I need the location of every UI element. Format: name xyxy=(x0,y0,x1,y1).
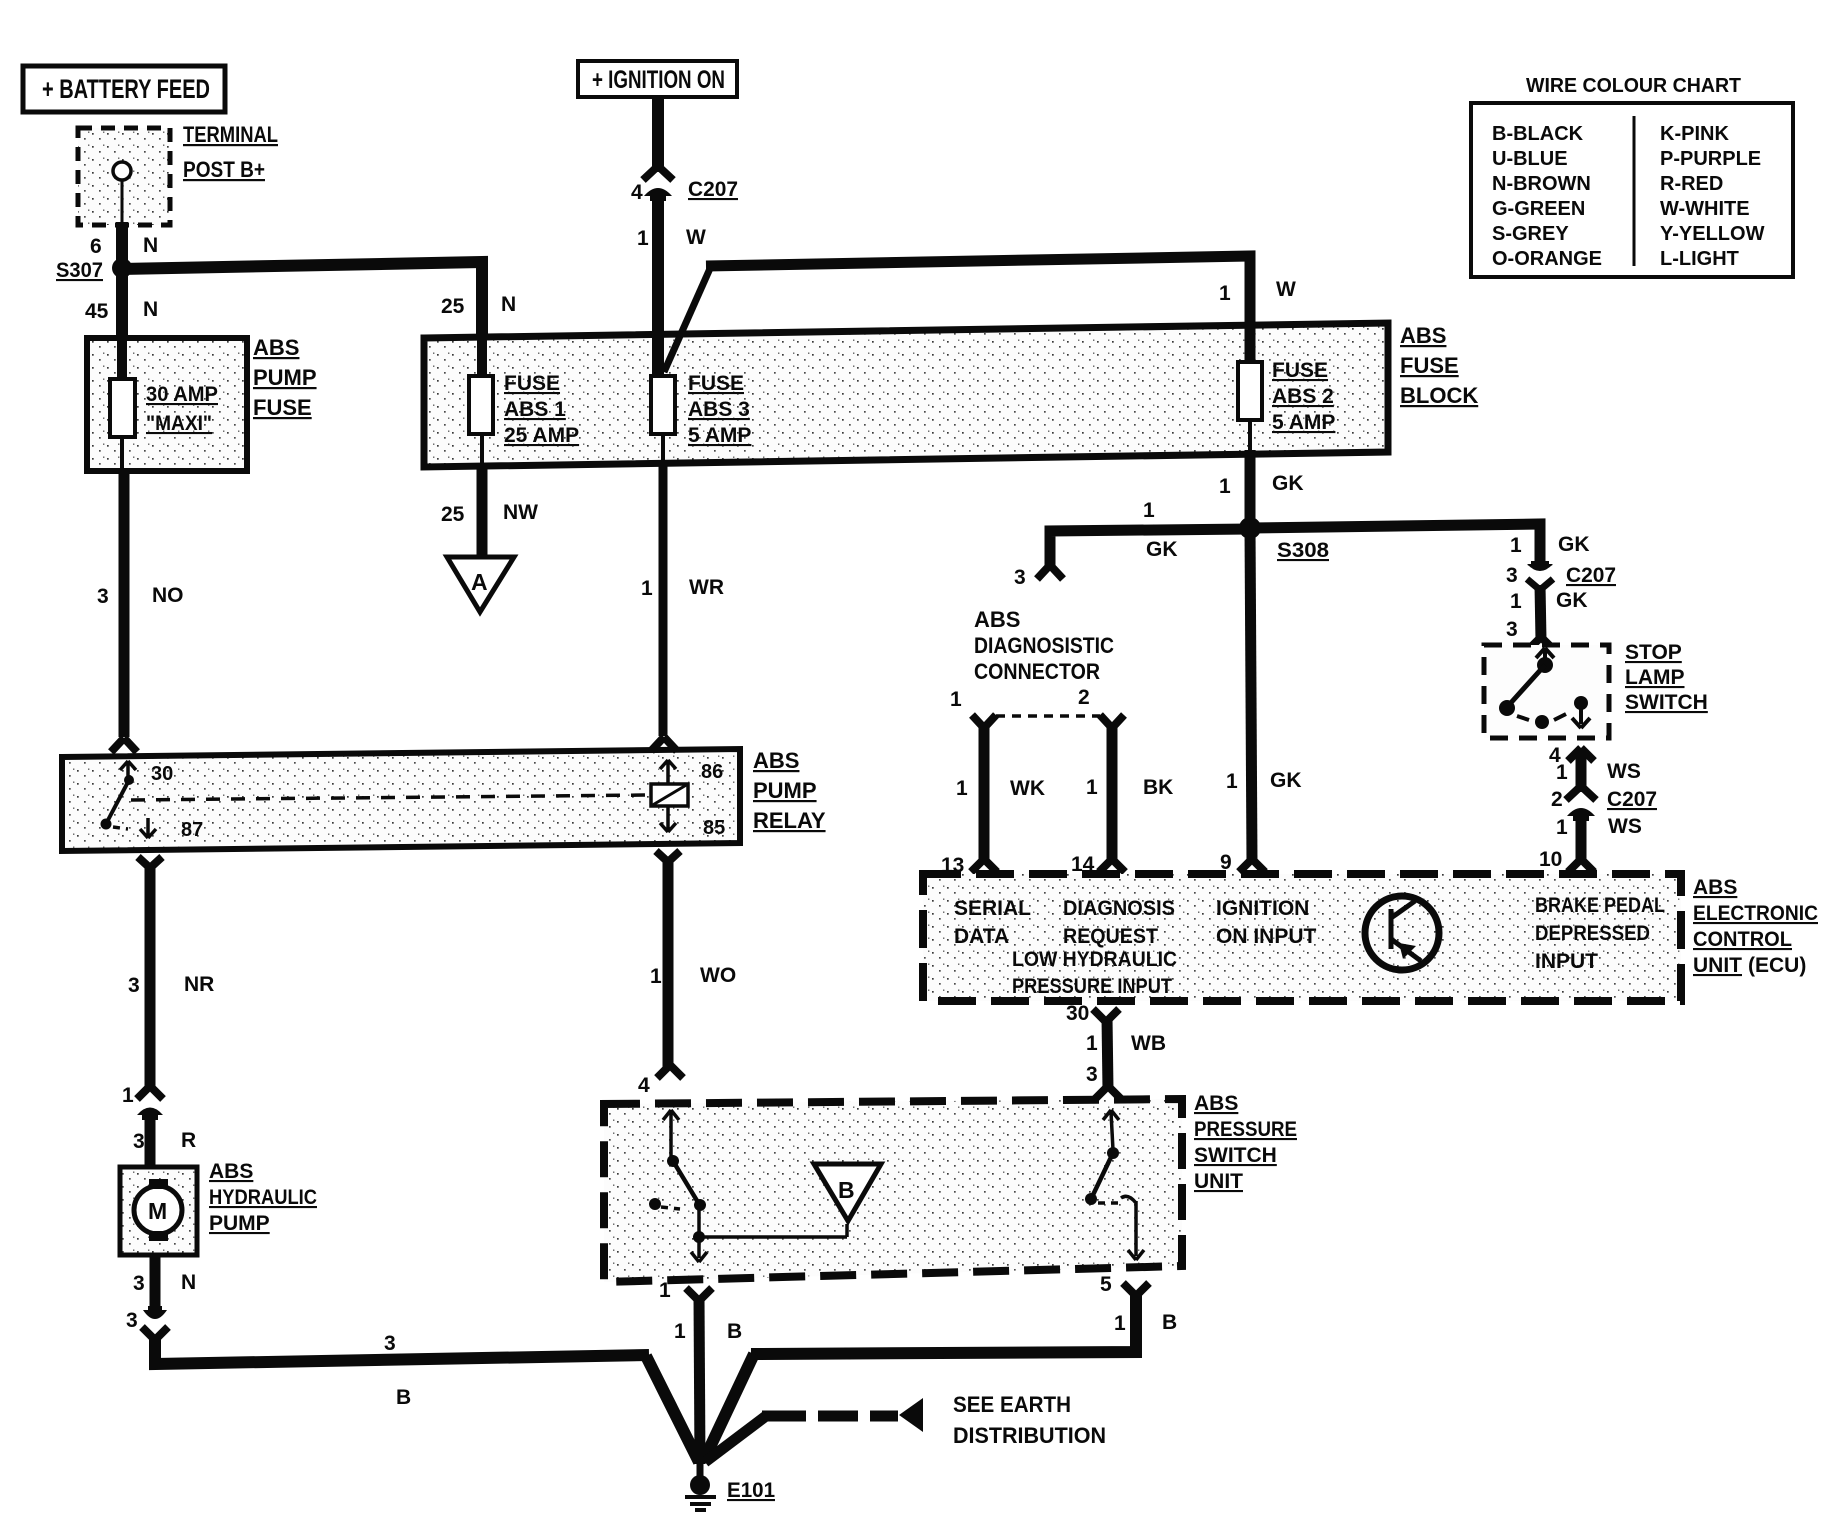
svg-text:TERMINAL: TERMINAL xyxy=(183,122,278,147)
svg-text:1: 1 xyxy=(641,577,653,600)
ABS hydraulic pump motor box xyxy=(120,1167,197,1255)
svg-text:BRAKE PEDAL: BRAKE PEDAL xyxy=(1535,894,1665,917)
svg-text:1: 1 xyxy=(637,227,649,250)
wire connector to pump, labels 3 R xyxy=(133,1113,196,1167)
svg-text:STOP: STOP xyxy=(1625,641,1682,664)
svg-text:BK: BK xyxy=(1143,776,1173,799)
svg-text:L-LIGHT: L-LIGHT xyxy=(1660,248,1739,270)
ignition on source box xyxy=(578,61,737,97)
wire S308 left branch to diagnostic connector, labels 1 GK 3 xyxy=(1014,499,1250,589)
svg-text:G-GREEN: G-GREEN xyxy=(1492,198,1585,220)
svg-text:ABS 1: ABS 1 xyxy=(504,398,566,421)
stop lamp switch label xyxy=(1625,641,1708,714)
pressure switch right contact pin 3 xyxy=(1085,1110,1144,1260)
svg-text:SEE EARTH: SEE EARTH xyxy=(953,1392,1071,1417)
svg-text:U-BLUE: U-BLUE xyxy=(1492,148,1568,170)
svg-text:3: 3 xyxy=(133,1272,145,1295)
svg-text:ABS: ABS xyxy=(974,607,1020,632)
wire pump branch to ground bus, labels 3 B xyxy=(155,1332,699,1462)
wire pressure switch pin 1 to ground, labels 1 B xyxy=(659,1279,742,1464)
svg-text:1: 1 xyxy=(1219,475,1231,498)
svg-text:4: 4 xyxy=(631,181,643,204)
stop lamp switch box xyxy=(1484,645,1609,738)
svg-text:30 AMP: 30 AMP xyxy=(146,383,218,406)
wire S307 down to ABS pump fuse, labels 45 N xyxy=(85,268,158,340)
svg-text:30: 30 xyxy=(1066,1002,1089,1025)
svg-text:PUMP: PUMP xyxy=(253,365,317,390)
svg-text:ABS: ABS xyxy=(1400,323,1446,348)
svg-text:85: 85 xyxy=(703,817,725,839)
svg-text:3: 3 xyxy=(128,974,140,997)
ECU transistor symbol xyxy=(1365,896,1439,970)
svg-text:3: 3 xyxy=(97,585,109,608)
relay coil drive dashed line xyxy=(131,795,651,800)
ABS hydraulic pump label xyxy=(209,1160,317,1235)
wire pressure switch pin 5 to ground, labels 1 B xyxy=(703,1273,1177,1462)
svg-text:ABS 3: ABS 3 xyxy=(688,398,750,421)
pressure switch left contact pin 4 xyxy=(663,1110,679,1167)
svg-text:B: B xyxy=(727,1320,742,1343)
svg-text:3: 3 xyxy=(1086,1063,1098,1086)
svg-text:R: R xyxy=(181,1129,196,1152)
wire ECU pin 30 to pressure switch pin 3, labels 30 1 WB 3 xyxy=(1066,1002,1166,1099)
wire relay 87 to pump, labels 3 NR xyxy=(128,857,214,1088)
terminal post B+ label xyxy=(183,122,278,182)
svg-text:S307: S307 xyxy=(56,259,103,282)
ABS pump fuse box xyxy=(87,338,247,471)
svg-text:FUSE: FUSE xyxy=(1272,359,1328,382)
svg-text:25: 25 xyxy=(441,295,465,318)
ABS electronic control unit ECU box xyxy=(923,874,1681,1001)
svg-text:W: W xyxy=(686,226,706,249)
svg-text:B: B xyxy=(838,1177,855,1203)
ABS fuse block label xyxy=(1400,323,1478,408)
wire C207 to fuse ABS3, labels 1 W xyxy=(637,194,706,378)
svg-text:2: 2 xyxy=(1078,686,1090,709)
svg-text:NR: NR xyxy=(184,973,214,996)
svg-text:+ IGNITION ON: + IGNITION ON xyxy=(592,66,725,94)
svg-text:S308: S308 xyxy=(1277,539,1329,562)
svg-text:WK: WK xyxy=(1010,777,1045,800)
svg-text:WS: WS xyxy=(1608,815,1642,838)
svg-text:1: 1 xyxy=(674,1320,686,1343)
relay pin 87 xyxy=(140,818,203,841)
wire pump down, labels 3 N xyxy=(133,1255,196,1312)
svg-text:SWITCH: SWITCH xyxy=(1194,1144,1277,1167)
svg-text:SERIAL: SERIAL xyxy=(954,897,1031,920)
relay pin 85 xyxy=(660,806,725,839)
svg-text:1: 1 xyxy=(659,1279,671,1302)
svg-text:FUSE: FUSE xyxy=(504,372,560,395)
svg-text:FUSE: FUSE xyxy=(688,372,744,395)
inline connector C207 (WS) xyxy=(1551,786,1657,821)
svg-text:GK: GK xyxy=(1270,769,1302,792)
svg-text:1: 1 xyxy=(650,965,662,988)
off-page connector A (triangle) xyxy=(447,557,514,612)
svg-text:GK: GK xyxy=(1556,589,1588,612)
svg-text:2: 2 xyxy=(1551,788,1563,811)
stop lamp switch contacts xyxy=(1499,648,1590,729)
wire ignition to connector C207, label 4 xyxy=(631,97,658,204)
svg-text:25 AMP: 25 AMP xyxy=(504,424,579,447)
svg-text:WIRE COLOUR CHART: WIRE COLOUR CHART xyxy=(1526,75,1741,97)
svg-text:"MAXI": "MAXI" xyxy=(146,412,212,435)
svg-text:25: 25 xyxy=(441,503,465,526)
ABS fuse block box xyxy=(424,323,1388,467)
wire C207 to ECU pin 10, labels 1 WS 10 xyxy=(1539,812,1642,872)
svg-text:GK: GK xyxy=(1272,472,1304,495)
ground E101 xyxy=(685,1458,775,1510)
svg-text:5: 5 xyxy=(1100,1273,1112,1296)
pressure switch left blade and contacts xyxy=(649,1161,847,1262)
ABS pump relay box xyxy=(62,749,740,851)
svg-text:GK: GK xyxy=(1558,533,1590,556)
relay pin 30 xyxy=(120,761,173,785)
svg-text:UNIT: UNIT xyxy=(1693,954,1742,977)
svg-text:6: 6 xyxy=(90,235,102,258)
svg-text:DIAGNOSIS: DIAGNOSIS xyxy=(1063,897,1175,920)
ABS pump relay label xyxy=(753,748,826,833)
inline connector C207 (GK branch) xyxy=(1506,561,1616,590)
svg-text:S-GREY: S-GREY xyxy=(1492,223,1569,245)
svg-text:N: N xyxy=(143,298,158,321)
wire C207 to stop lamp switch, labels 1 GK 3 xyxy=(1506,585,1588,650)
svg-text:ABS: ABS xyxy=(209,1160,253,1183)
svg-text:ABS: ABS xyxy=(1693,876,1737,899)
svg-text:N: N xyxy=(181,1271,196,1294)
svg-text:+ BATTERY FEED: + BATTERY FEED xyxy=(42,74,210,104)
wire stop lamp switch to C207, labels 4 1 WS xyxy=(1549,744,1641,792)
svg-text:3: 3 xyxy=(1014,566,1026,589)
inline connector 3 (N/B) xyxy=(126,1306,168,1340)
svg-text:C207: C207 xyxy=(1566,564,1616,587)
svg-text:WB: WB xyxy=(1131,1032,1166,1055)
svg-text:O-ORANGE: O-ORANGE xyxy=(1492,248,1602,270)
relay coil xyxy=(651,784,688,806)
svg-text:SWITCH: SWITCH xyxy=(1625,691,1708,714)
svg-text:INPUT: INPUT xyxy=(1535,950,1598,973)
svg-text:C207: C207 xyxy=(1607,788,1657,811)
svg-text:1: 1 xyxy=(1510,590,1522,613)
svg-text:4: 4 xyxy=(638,1074,650,1097)
svg-text:R-RED: R-RED xyxy=(1660,173,1723,195)
svg-text:1: 1 xyxy=(1143,499,1155,522)
svg-text:1: 1 xyxy=(122,1084,134,1107)
svg-text:DATA: DATA xyxy=(954,925,1009,948)
svg-text:BLOCK: BLOCK xyxy=(1400,383,1478,408)
ABS pump fuse label xyxy=(253,335,317,420)
svg-text:1: 1 xyxy=(950,688,962,711)
ABS electronic control unit label xyxy=(1693,876,1818,977)
wire S308 to ECU pin 9, labels 1 GK 9 xyxy=(1220,528,1302,874)
wire colour chart entries xyxy=(1492,123,1765,270)
svg-text:N: N xyxy=(501,293,516,316)
svg-text:CONTROL: CONTROL xyxy=(1693,928,1792,951)
svg-text:P-PURPLE: P-PURPLE xyxy=(1660,148,1761,170)
fuse element 30 AMP MAXI xyxy=(110,379,218,437)
ABS diagnostic connector label xyxy=(974,607,1114,684)
wire pump fuse to relay pin 30, labels 3 NO xyxy=(97,471,184,752)
svg-text:86: 86 xyxy=(701,761,723,783)
see earth distribution dashed wire with arrow xyxy=(705,1392,1106,1462)
svg-text:NO: NO xyxy=(152,584,184,607)
wire ignition branch to fuse ABS2 (horizontal), labels 1 W xyxy=(664,256,1296,372)
relay pin 86 xyxy=(660,760,723,784)
wire S308 right branch to stop lamp switch, labels 1 GK xyxy=(1250,524,1590,566)
svg-text:ELECTRONIC: ELECTRONIC xyxy=(1693,902,1818,925)
svg-text:DEPRESSED: DEPRESSED xyxy=(1535,922,1650,945)
svg-text:DISTRIBUTION: DISTRIBUTION xyxy=(953,1423,1106,1448)
svg-text:1: 1 xyxy=(1556,761,1568,784)
fuse ABS1 element xyxy=(469,340,579,464)
svg-text:5 AMP: 5 AMP xyxy=(688,424,751,447)
ABS pressure switch unit label xyxy=(1194,1092,1297,1193)
svg-text:ABS: ABS xyxy=(1194,1092,1238,1115)
node S308 xyxy=(1239,517,1329,562)
svg-text:ABS: ABS xyxy=(753,748,799,773)
ABS pressure switch unit box xyxy=(604,1099,1182,1282)
wire colour chart box xyxy=(1471,75,1793,277)
svg-text:1: 1 xyxy=(1510,534,1522,557)
off-page connector B (triangle) xyxy=(814,1164,881,1221)
svg-text:3: 3 xyxy=(133,1130,145,1153)
wire terminal post to S307, labels 6 N xyxy=(90,222,158,268)
svg-text:K-PINK: K-PINK xyxy=(1660,123,1729,145)
wire S307 to fuse ABS1 (horizontal), labels 25 N xyxy=(122,262,516,338)
svg-text:A: A xyxy=(471,569,488,595)
svg-text:1: 1 xyxy=(1086,1032,1098,1055)
svg-text:N: N xyxy=(143,234,158,257)
relay switch blade 30-87 xyxy=(101,780,130,830)
svg-text:B: B xyxy=(1162,1311,1177,1334)
svg-text:B-BLACK: B-BLACK xyxy=(1492,123,1584,145)
svg-text:PUMP: PUMP xyxy=(753,778,817,803)
svg-text:LAMP: LAMP xyxy=(1625,666,1685,689)
svg-text:WR: WR xyxy=(689,576,724,599)
svg-text:10: 10 xyxy=(1539,848,1562,871)
svg-text:1: 1 xyxy=(1226,770,1238,793)
svg-text:WS: WS xyxy=(1607,760,1641,783)
fuse ABS3 element xyxy=(651,340,751,462)
svg-text:87: 87 xyxy=(181,819,203,841)
svg-text:3: 3 xyxy=(1506,618,1518,641)
svg-text:3: 3 xyxy=(384,1332,396,1355)
svg-text:1: 1 xyxy=(1114,1312,1126,1335)
svg-text:W: W xyxy=(1276,278,1296,301)
svg-text:1: 1 xyxy=(1219,282,1231,305)
ECU input labels xyxy=(954,894,1665,998)
svg-text:REQUEST: REQUEST xyxy=(1063,925,1158,948)
svg-text:ON INPUT: ON INPUT xyxy=(1216,925,1317,948)
fuse ABS2 element xyxy=(1238,359,1335,450)
wire diag pin 1 to ECU pin 13, labels 1 WK 13 xyxy=(941,724,1045,877)
svg-text:1: 1 xyxy=(1556,816,1568,839)
svg-text:1: 1 xyxy=(956,777,968,800)
svg-text:Y-YELLOW: Y-YELLOW xyxy=(1660,223,1765,245)
svg-text:1: 1 xyxy=(1086,776,1098,799)
svg-text:3: 3 xyxy=(1506,564,1518,587)
battery feed source box xyxy=(23,66,225,112)
svg-text:DIAGNOSISTIC: DIAGNOSISTIC xyxy=(974,633,1114,658)
svg-text:5 AMP: 5 AMP xyxy=(1272,411,1335,434)
inline connector 1 (NR/R) xyxy=(122,1084,163,1120)
svg-text:PRESSURE: PRESSURE xyxy=(1194,1118,1297,1141)
svg-text:M: M xyxy=(148,1198,167,1224)
svg-text:N-BROWN: N-BROWN xyxy=(1492,173,1591,195)
svg-text:CONNECTOR: CONNECTOR xyxy=(974,659,1100,684)
svg-text:HYDRAULIC: HYDRAULIC xyxy=(209,1186,317,1209)
svg-text:FUSE: FUSE xyxy=(253,395,312,420)
svg-text:B: B xyxy=(396,1386,411,1409)
wire diag pin 2 to ECU pin 14, labels 1 BK 14 xyxy=(1071,724,1173,876)
terminal post B+ (dashed box with stud) xyxy=(78,128,170,225)
svg-text:PRESSURE INPUT: PRESSURE INPUT xyxy=(1012,975,1172,998)
inline connector C207 (ignition) xyxy=(643,166,738,201)
svg-text:3: 3 xyxy=(126,1309,138,1332)
wire relay 85 to pressure switch pin 4, labels 1 WO xyxy=(638,851,736,1097)
svg-text:C207: C207 xyxy=(688,178,738,201)
svg-text:ABS 2: ABS 2 xyxy=(1272,385,1334,408)
svg-text:PUMP: PUMP xyxy=(209,1212,270,1235)
svg-text:30: 30 xyxy=(151,763,173,785)
svg-text:RELAY: RELAY xyxy=(753,808,826,833)
wire fuse ABS1 to connector A, labels 25 NW xyxy=(441,464,538,557)
wire fuse ABS3 to relay pin 86, labels 1 WR xyxy=(641,462,724,751)
wire fuse ABS2 to S308, labels 1 GK xyxy=(1219,450,1304,530)
svg-text:NW: NW xyxy=(503,501,538,524)
svg-text:LOW HYDRAULIC: LOW HYDRAULIC xyxy=(1012,948,1177,971)
svg-text:UNIT: UNIT xyxy=(1194,1170,1243,1193)
svg-text:WO: WO xyxy=(700,964,736,987)
svg-text:POST B+: POST B+ xyxy=(183,157,265,182)
svg-text:45: 45 xyxy=(85,300,109,323)
svg-text:E101: E101 xyxy=(727,1479,775,1502)
node S307 xyxy=(56,258,132,282)
diagnostic connector pins 1 and 2 xyxy=(950,686,1124,728)
svg-text:IGNITION: IGNITION xyxy=(1216,897,1309,920)
svg-text:GK: GK xyxy=(1146,538,1178,561)
svg-text:W-WHITE: W-WHITE xyxy=(1660,198,1750,220)
svg-text:FUSE: FUSE xyxy=(1400,353,1459,378)
svg-text:ABS: ABS xyxy=(253,335,299,360)
svg-text:(ECU): (ECU) xyxy=(1748,954,1806,977)
